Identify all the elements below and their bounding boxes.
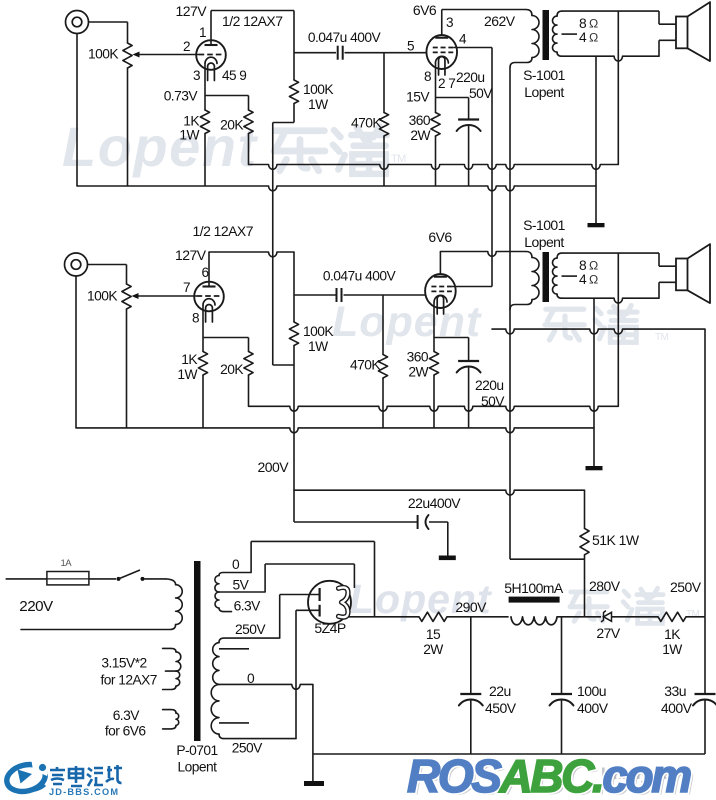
resistor R13 1K 1W <box>658 612 686 621</box>
wire feedback ch1 <box>617 11 619 164</box>
svg-text:1W: 1W <box>308 339 328 354</box>
resistor R7 1K 1W <box>198 352 207 376</box>
svg-text:4: 4 <box>579 272 587 287</box>
svg-text:8: 8 <box>192 311 199 326</box>
choke L1 5H100mA <box>509 597 560 603</box>
svg-text:262V: 262V <box>484 13 516 29</box>
wire <box>202 375 204 428</box>
svg-text:6V6: 6V6 <box>413 2 437 18</box>
wire mains L <box>6 578 47 580</box>
wire B+ 290V <box>348 616 419 618</box>
input jack J1 <box>66 11 89 34</box>
svg-text:Lopent: Lopent <box>332 298 482 346</box>
wire 0 tap <box>250 541 252 572</box>
svg-text:Lopent: Lopent <box>524 84 564 100</box>
resistor R8 20K <box>244 352 253 376</box>
svg-text:4: 4 <box>459 32 467 47</box>
svg-text:33u: 33u <box>664 683 686 699</box>
svg-text:4: 4 <box>579 30 587 45</box>
wire plate V2 <box>441 10 443 37</box>
wire <box>293 11 295 81</box>
svg-text:0.047u 400V: 0.047u 400V <box>323 269 397 284</box>
svg-text:100K: 100K <box>88 47 119 62</box>
wire <box>127 68 129 186</box>
svg-text:Ω: Ω <box>589 258 598 272</box>
svg-text:1W: 1W <box>177 367 197 382</box>
svg-text:470K: 470K <box>351 116 382 131</box>
svg-text:2 7: 2 7 <box>438 76 455 91</box>
wire screen V2 <box>453 47 492 49</box>
svg-text:2W: 2W <box>410 128 430 143</box>
svg-text:127V: 127V <box>175 247 207 263</box>
svg-text:100K: 100K <box>303 324 334 339</box>
svg-text:400V: 400V <box>661 700 693 716</box>
svg-text:6.3V: 6.3V <box>234 599 262 614</box>
wire <box>593 298 595 466</box>
wire plate2 250V <box>295 610 297 738</box>
ground C5 <box>447 522 449 556</box>
svg-text:100K: 100K <box>87 289 118 304</box>
speaker SP1 <box>658 11 660 24</box>
wire <box>435 136 437 186</box>
svg-text:0: 0 <box>247 671 255 686</box>
resistor R10 360 2W <box>429 352 438 376</box>
resistor R1 100K 1W <box>289 80 298 104</box>
wire <box>383 136 385 186</box>
transformer T1 S-1001 primary+secondary <box>526 10 532 16</box>
svg-text:P-0701: P-0701 <box>176 743 217 758</box>
svg-text:for 12AX7: for 12AX7 <box>101 673 157 688</box>
svg-text:200V: 200V <box>258 459 290 475</box>
svg-text:20K: 20K <box>220 362 244 377</box>
svg-text:for 6V6: for 6V6 <box>105 723 147 738</box>
wire <box>75 276 77 428</box>
wire screen rail <box>492 329 705 334</box>
wire feedback ch2 <box>617 253 619 406</box>
wire cathode V1b <box>202 305 204 352</box>
svg-text:220V: 220V <box>19 598 54 615</box>
resistor R9 470K <box>378 355 387 379</box>
svg-text:450V: 450V <box>485 700 517 716</box>
svg-text:20K: 20K <box>220 118 244 133</box>
wire cathode V2 <box>435 63 437 113</box>
capacitor C2 220u 50V <box>468 98 470 120</box>
wire plate1 250V <box>279 595 281 639</box>
svg-text:Ω: Ω <box>589 272 598 286</box>
wire cathode V1a <box>204 64 206 111</box>
pentode V2 6V6 <box>426 35 457 69</box>
svg-text:2: 2 <box>183 39 190 54</box>
svg-text:1K: 1K <box>183 114 200 129</box>
ground PSU <box>304 781 324 786</box>
svg-text:100K: 100K <box>303 82 334 97</box>
diode D1 27V <box>604 612 612 621</box>
wire feedback line ch2 <box>249 406 619 411</box>
svg-text:127V: 127V <box>176 3 208 19</box>
svg-text:Ω: Ω <box>589 30 598 44</box>
svg-text:TM: TM <box>655 332 669 343</box>
wire <box>204 134 206 187</box>
wire <box>294 52 336 54</box>
svg-text:5Z4P: 5Z4P <box>314 620 345 636</box>
wire <box>145 578 167 580</box>
capacitor C6 22u 450V <box>470 617 472 694</box>
svg-text:6.3V: 6.3V <box>113 708 141 723</box>
svg-text:Lopent: Lopent <box>524 234 564 250</box>
wire <box>248 375 250 406</box>
svg-text:22u: 22u <box>489 683 511 699</box>
svg-text:250V: 250V <box>235 622 266 637</box>
svg-text:1: 1 <box>199 25 206 40</box>
svg-text:1K: 1K <box>664 627 681 642</box>
resistor R4 470K <box>379 113 388 137</box>
wire <box>76 34 78 187</box>
svg-text:360: 360 <box>409 113 431 128</box>
svg-text:51K 1W: 51K 1W <box>592 532 640 548</box>
wire <box>89 578 116 580</box>
svg-text:1W: 1W <box>662 642 682 657</box>
svg-text:250V: 250V <box>670 579 702 595</box>
logo JD-BBS icon <box>4 758 52 795</box>
svg-text:S-1001: S-1001 <box>523 217 566 233</box>
logo JD-BBS text <box>50 767 65 784</box>
svg-text:ROSABC.com: ROSABC.com <box>407 750 690 800</box>
svg-text:2W: 2W <box>423 642 443 657</box>
transformer T3 primary 220V <box>166 579 176 585</box>
svg-text:1/2 12AX7: 1/2 12AX7 <box>193 223 254 239</box>
wire cathode V3 <box>433 302 435 352</box>
winding layer stubs <box>219 648 249 650</box>
svg-text:Ω: Ω <box>589 16 598 30</box>
svg-text:27V: 27V <box>596 625 620 641</box>
capacitor C5 22u 400V <box>417 515 419 529</box>
svg-text:15V: 15V <box>406 90 430 105</box>
svg-text:2W: 2W <box>408 365 428 380</box>
svg-text:6: 6 <box>201 265 208 280</box>
rectifier V4 5Z4P <box>308 581 351 624</box>
svg-text:280V: 280V <box>589 578 621 594</box>
wire ground bus ch1 <box>77 186 596 191</box>
wire <box>293 346 295 523</box>
resistor R3 20K <box>244 110 253 134</box>
capacitor C7 100u 400V <box>561 617 563 694</box>
svg-text:1W: 1W <box>308 97 328 112</box>
triode V1b 1/2 12AX7 <box>194 282 224 312</box>
wire <box>382 378 384 428</box>
svg-text:7: 7 <box>183 280 190 295</box>
svg-text:1A: 1A <box>61 558 73 569</box>
speaker SP2 <box>658 253 660 266</box>
svg-text:JD-BBS.COM: JD-BBS.COM <box>49 787 119 797</box>
wire ground bus ch2 <box>76 428 594 433</box>
fuse F1 1A <box>47 572 89 585</box>
pentode V3 6V6 <box>425 274 456 308</box>
svg-text:5V: 5V <box>233 578 250 593</box>
wire <box>345 52 427 54</box>
wire <box>595 56 597 223</box>
wire 200V to 22u cap <box>294 521 417 523</box>
potentiometer VR2 100K <box>122 284 131 309</box>
svg-text:1/2 12AX7: 1/2 12AX7 <box>222 13 283 29</box>
transformer T3 winding 5V <box>219 573 251 576</box>
svg-text:290V: 290V <box>455 599 487 615</box>
svg-text:Lopent: Lopent <box>178 760 218 775</box>
svg-text:360: 360 <box>407 350 429 365</box>
svg-text:0: 0 <box>232 557 240 572</box>
wire <box>89 21 128 23</box>
wire <box>248 134 250 165</box>
wire <box>88 264 127 266</box>
svg-text:45 9: 45 9 <box>222 68 246 83</box>
switch S1 <box>117 577 121 581</box>
wire 200V rail <box>273 364 294 366</box>
potentiometer VR1 100K <box>123 43 132 68</box>
wire <box>447 616 509 618</box>
wire plate V1b <box>208 252 210 287</box>
resistor R6 100K 1W <box>289 322 298 346</box>
ground ch2 <box>586 466 603 470</box>
svg-text:3.15V*2: 3.15V*2 <box>101 656 146 671</box>
wire plate V3 <box>439 252 441 276</box>
wire <box>557 616 601 618</box>
wire plate V1a <box>210 11 212 46</box>
svg-text:250V: 250V <box>232 741 263 756</box>
wire feedback line ch1 <box>249 165 619 170</box>
resistor R11 51K 1W <box>580 528 589 554</box>
svg-text:50V: 50V <box>469 86 493 101</box>
svg-text:100u: 100u <box>577 683 606 699</box>
svg-text:TM: TM <box>391 153 406 165</box>
svg-text:0.73V: 0.73V <box>164 89 199 104</box>
wire <box>382 295 384 355</box>
transformer T3 winding 6.3V <box>163 710 176 714</box>
transformer T3 winding HT <box>219 638 280 643</box>
wire <box>293 252 295 322</box>
transformer T2 S-1001 <box>526 252 532 258</box>
wire <box>344 294 427 296</box>
resistor R2 1K 1W <box>200 110 209 134</box>
svg-text:6V6: 6V6 <box>428 229 452 245</box>
wire screen V3 <box>452 286 492 288</box>
svg-text:0.047u 400V: 0.047u 400V <box>308 30 382 45</box>
wire 280V <box>584 555 586 617</box>
wire <box>383 53 385 113</box>
wire <box>126 309 128 428</box>
wire <box>294 294 336 296</box>
svg-text:15: 15 <box>426 627 441 642</box>
wire <box>293 104 295 123</box>
svg-text:220u: 220u <box>456 70 485 85</box>
capacitor C8 33u 400V <box>695 693 716 695</box>
svg-text:1W: 1W <box>179 128 199 143</box>
wire <box>686 616 705 618</box>
svg-text:3: 3 <box>193 68 200 83</box>
capacitor C1 0.047u 400V <box>337 46 339 60</box>
svg-text:5: 5 <box>407 39 414 54</box>
capacitor C3 0.047u 400V <box>336 288 338 302</box>
wire <box>433 375 435 428</box>
wire primary B+ vert <box>509 68 511 560</box>
resistor R12 15 2W <box>419 612 447 621</box>
svg-text:8: 8 <box>579 258 587 273</box>
svg-text:S-1001: S-1001 <box>523 67 566 83</box>
logo ROSABC.com <box>407 750 693 800</box>
transformer T3 core <box>194 561 201 741</box>
transformer T3 winding 3.15V <box>163 648 176 652</box>
svg-text:3: 3 <box>446 15 453 30</box>
svg-text:5H100mA: 5H100mA <box>504 580 564 596</box>
resistor R5 360 2W <box>431 113 440 137</box>
capacitor C4 220u 50V <box>468 338 470 362</box>
svg-text:8: 8 <box>424 69 431 84</box>
wire ground bus PSU <box>313 753 705 755</box>
svg-text:1K: 1K <box>181 352 198 367</box>
ground ch1 <box>588 223 605 227</box>
input jack J2 <box>65 253 88 276</box>
wire HT center tap <box>219 684 313 689</box>
svg-text:400V: 400V <box>577 700 609 716</box>
svg-text:22u400V: 22u400V <box>408 495 461 511</box>
wire 5V tap <box>264 564 266 592</box>
svg-text:470K: 470K <box>350 358 381 373</box>
svg-text:TM: TM <box>686 609 700 620</box>
svg-text:8: 8 <box>579 16 587 31</box>
svg-text:220u: 220u <box>475 378 504 393</box>
triode V1a 1/2 12AX7 <box>196 40 226 70</box>
